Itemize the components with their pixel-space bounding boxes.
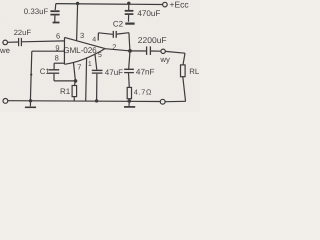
svg-text:8: 8 [55, 54, 59, 63]
svg-text:+Ecc: +Ecc [170, 0, 190, 10]
svg-text:2200uF: 2200uF [138, 35, 167, 45]
svg-text:RL: RL [189, 67, 200, 76]
svg-text:47nF: 47nF [136, 68, 155, 77]
svg-text:2: 2 [112, 42, 116, 51]
svg-text:5: 5 [98, 52, 102, 59]
svg-text:470uF: 470uF [137, 9, 160, 18]
svg-text:C1: C1 [40, 67, 50, 76]
svg-text:0.33uF: 0.33uF [24, 7, 49, 16]
svg-text:9: 9 [55, 43, 59, 52]
svg-text:we: we [0, 46, 10, 55]
svg-text:C2: C2 [113, 20, 124, 29]
svg-text:1: 1 [88, 61, 92, 68]
svg-text:22uF: 22uF [14, 28, 32, 37]
svg-text:7: 7 [77, 63, 81, 72]
svg-text:47uF: 47uF [105, 68, 123, 77]
svg-text:R1: R1 [60, 87, 71, 96]
svg-text:3: 3 [80, 31, 84, 40]
svg-text:GML-026: GML-026 [63, 46, 97, 55]
svg-text:4: 4 [92, 37, 96, 44]
svg-text:4.7Ω: 4.7Ω [134, 87, 152, 96]
svg-text:wy: wy [159, 55, 170, 64]
svg-text:6: 6 [56, 32, 60, 41]
